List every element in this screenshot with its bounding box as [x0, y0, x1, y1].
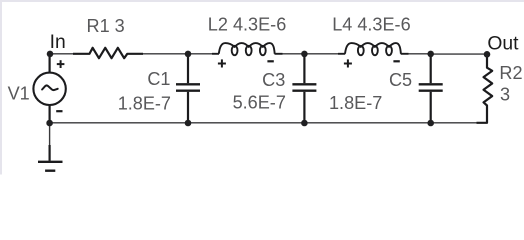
inductor L2 [212, 43, 283, 55]
junction dot C3 top [301, 51, 308, 58]
L4 minus mark [393, 60, 399, 62]
L2 minus mark [267, 60, 273, 62]
junction dot C1 bottom [185, 120, 192, 127]
resistor R1 [73, 48, 143, 58]
node Out junction dot [484, 51, 491, 58]
junction dot C1 top [185, 51, 192, 58]
wire: L4 to C5 node [409, 53, 431, 55]
svg-text:3: 3 [500, 85, 510, 105]
inductor L4 [338, 43, 409, 55]
wire: C1 node to L2 [188, 53, 212, 55]
capacitor C5 [419, 54, 443, 123]
resistor R2 [477, 55, 493, 123]
wire: In node to R1 [50, 53, 73, 55]
capacitor C3 [292, 54, 316, 123]
svg-text:V1: V1 [8, 84, 30, 104]
wire: ground stub below V1 [49, 123, 51, 146]
V1 minus mark [56, 110, 62, 112]
ground [38, 145, 63, 171]
junction dot C3 bottom [301, 120, 308, 127]
wire: R1 to C1 top node [143, 53, 188, 55]
svg-text:C1: C1 [147, 69, 170, 89]
svg-text:C5: C5 [389, 70, 412, 90]
L4 plus mark [344, 59, 352, 67]
svg-text:R2: R2 [499, 63, 522, 83]
junction dot C5 top [427, 51, 434, 58]
wire: C3 node to L4 [304, 53, 338, 55]
svg-text:5.6E-7: 5.6E-7 [233, 92, 286, 112]
wire: L2 to C3 node [282, 53, 304, 55]
L2 plus mark [218, 59, 226, 67]
junction dot V1 bottom / ground node [46, 120, 53, 127]
junction dot C5 bottom [427, 120, 434, 127]
svg-text:L2 4.3E-6: L2 4.3E-6 [208, 15, 286, 35]
svg-text:R1 3: R1 3 [87, 16, 125, 36]
svg-text:1.8E-7: 1.8E-7 [118, 94, 171, 114]
svg-text:Out: Out [487, 33, 519, 54]
voltage source V1 [33, 54, 65, 123]
node In junction dot [47, 51, 54, 58]
svg-text:In: In [50, 32, 66, 53]
svg-text:C3: C3 [262, 70, 285, 90]
wire: bottom ground rail [50, 116, 487, 123]
svg-text:L4 4.3E-6: L4 4.3E-6 [332, 15, 410, 35]
wire: C5 node to Out node [431, 53, 487, 55]
capacitor C1 [176, 54, 200, 123]
svg-text:1.8E-7: 1.8E-7 [329, 93, 382, 113]
V1 plus mark [57, 60, 65, 68]
